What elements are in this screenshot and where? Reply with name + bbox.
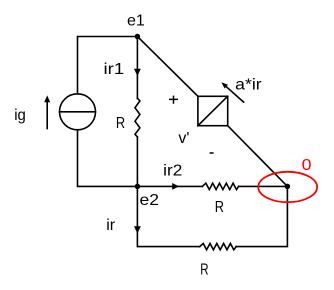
svg-text:e2: e2	[140, 192, 160, 209]
svg-text:ir1: ir1	[104, 61, 125, 78]
svg-text:R: R	[116, 115, 125, 132]
svg-text:ir: ir	[106, 217, 116, 234]
svg-text:R: R	[200, 262, 208, 279]
svg-text:v': v'	[178, 130, 189, 147]
svg-text:R: R	[215, 199, 224, 216]
svg-text:0: 0	[302, 157, 312, 174]
svg-text:ir2: ir2	[163, 163, 182, 180]
svg-text:ig: ig	[14, 107, 26, 124]
svg-text:e1: e1	[127, 13, 145, 30]
svg-text:a*ir: a*ir	[235, 76, 262, 93]
